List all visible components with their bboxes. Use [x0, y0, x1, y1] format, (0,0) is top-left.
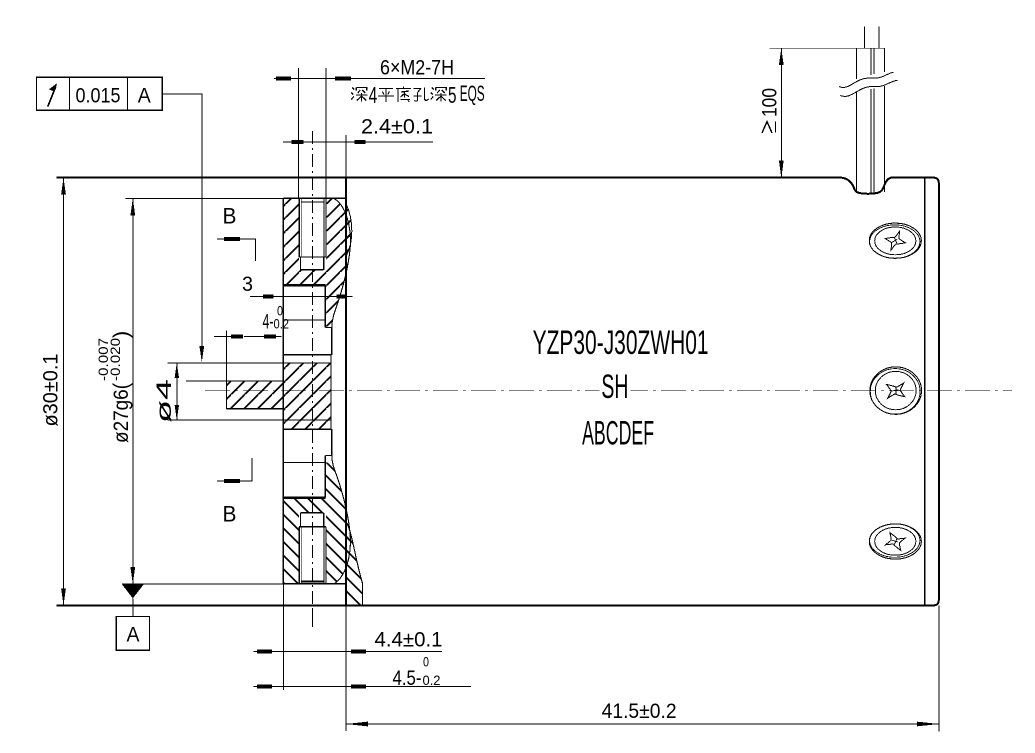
motor body right edge [938, 183, 940, 600]
screw top (phillips pan head) [869, 223, 921, 258]
datum box [116, 617, 149, 651]
dim line o30 [63, 178, 65, 606]
dim line 2.4 [283, 141, 433, 143]
flange top edge left extension [125, 197, 283, 199]
dim line 41.5 [346, 723, 939, 725]
svg-text:100: 100 [758, 88, 782, 117]
hub right face [330, 355, 332, 429]
bell curve lower [332, 456, 351, 584]
motor body top edge with wire notch [57, 178, 939, 194]
bell lip upper (outside face) [346, 204, 352, 256]
svg-text:2.4±0.1: 2.4±0.1 [361, 116, 433, 139]
hatch: bell foot lower-right corner [346, 522, 362, 605]
svg-text:EQS: EQS [460, 81, 485, 106]
hatch: bell lip lens upper [346, 204, 352, 256]
motor body bottom-right corner [934, 600, 939, 605]
dim text o4 (rotated) [152, 379, 176, 423]
shaft bottom edge [227, 408, 284, 410]
hatch: flange upper-right block (to bell curve) [325, 198, 350, 327]
runout symbol arrow [48, 87, 56, 107]
lower slot thick bottom line [283, 497, 325, 499]
motor end-cap seam line [924, 178, 926, 606]
dim line 3 [250, 295, 353, 297]
lower slot top [283, 462, 325, 464]
screw middle (phillips pan head) [870, 367, 922, 414]
upper pocket step [325, 327, 332, 329]
svg-text:0: 0 [423, 655, 429, 670]
lower slot right face [324, 456, 326, 498]
dim line >=100 vertical [780, 48, 782, 177]
svg-text:B: B [223, 204, 237, 229]
section B bottom arrow [217, 458, 252, 481]
hatch: band above lower tapped hole [299, 498, 326, 513]
shaft dia top line (ext of o4) [168, 362, 331, 364]
hatch: shaft tip [227, 381, 284, 409]
SH text with mask over centerline [599, 378, 630, 402]
FCF leader line [162, 94, 202, 348]
motor body bottom edge [57, 604, 934, 606]
dim text o27g6 tolerances (rotated) [96, 331, 133, 443]
svg-text:B: B [223, 502, 237, 527]
flange top face [283, 197, 346, 199]
screw bottom (phillips pan head) [869, 524, 921, 559]
lower tapped hole thread inner lines [300, 527, 302, 584]
hatch: hub block [283, 363, 331, 429]
svg-text:A: A [138, 83, 152, 107]
upper tapped hole thread inner lines [300, 198, 302, 257]
lower hole mouth line [301, 581, 324, 583]
wire break wavy line 2 [840, 80, 898, 96]
ext line at wire end [770, 47, 885, 49]
svg-text:41.5±0.2: 41.5±0.2 [602, 700, 677, 723]
flange bottom face [283, 583, 346, 585]
hub top face [283, 354, 331, 356]
hub bottom face [283, 428, 331, 430]
hatch: flange lower-right block (to bell curve) [325, 463, 350, 584]
bell foot outline lower [346, 522, 362, 605]
upper slot right face [324, 285, 326, 327]
dim text o30+-0.1 (rotated) [39, 354, 63, 427]
svg-text:5: 5 [448, 82, 457, 108]
shaft flat top edge [186, 380, 284, 382]
bell curve upper [332, 198, 351, 327]
note text CJK line: shen4 pingdikong shen5 EQS [351, 88, 367, 102]
dim text >=100 (rotated) [758, 88, 782, 133]
svg-text:ø4: ø4 [152, 379, 176, 423]
ext lines below [282, 584, 284, 659]
upper slot thick top line [283, 284, 325, 286]
lower hole thread top step [299, 526, 326, 528]
dim line o27g6 [132, 198, 134, 584]
lead wire upper stubs [863, 27, 865, 49]
screw-hole vertical centerline [311, 131, 313, 627]
svg-text:ø27g6(: ø27g6( [109, 382, 133, 443]
lead wire bundle upper segment [855, 48, 857, 79]
motor front face [345, 178, 347, 606]
svg-text:4-: 4- [263, 311, 274, 334]
section B top arrow [217, 239, 256, 261]
feature control frame box [37, 77, 163, 110]
dim line o4 [176, 363, 178, 420]
svg-text:0.015: 0.015 [76, 83, 121, 107]
svg-text:4: 4 [369, 82, 378, 108]
horizontal centerline [205, 390, 1012, 392]
ext left for 4.5 [282, 659, 284, 690]
svg-text:YZP30-J30ZWH01: YZP30-J30ZWH01 [533, 324, 709, 362]
hatch: flange lower-left block [283, 498, 299, 584]
lower hole flat-bottom drill [300, 513, 302, 527]
ext line motor face up [345, 135, 347, 178]
svg-text:ABCDEF: ABCDEF [582, 415, 654, 453]
dim line 4-0.2 [244, 336, 282, 338]
FCF leader arrow [199, 346, 204, 362]
shaft dia bottom line (ext of o4) [168, 419, 331, 421]
hatch: band under upper tapped hole [299, 270, 326, 286]
svg-text:SH: SH [601, 368, 628, 406]
datum triangle [122, 585, 143, 599]
dim line 4.5 [254, 685, 471, 687]
upper hole mouth line [302, 201, 325, 203]
ext line right edge down [938, 605, 940, 731]
lower pocket step [325, 455, 332, 457]
svg-text:3: 3 [242, 273, 253, 296]
note/dim line y=78.3 [274, 77, 485, 79]
svg-text:): ) [109, 331, 133, 338]
svg-text:A: A [127, 623, 141, 647]
flange left face [282, 198, 284, 584]
pocket right face upper [331, 328, 333, 355]
flange bottom edge left extension [122, 583, 283, 585]
svg-text:ø30±0.1: ø30±0.1 [39, 354, 63, 427]
wire break wavy line 1 [839, 72, 894, 87]
shaft tip end + 4-0.2 extension [226, 331, 228, 409]
lead wire bundle lower segment [855, 92, 857, 193]
upper hole thread bottom step [299, 256, 326, 258]
upper tapped hole M2 walls [298, 198, 300, 257]
svg-text:0.2: 0.2 [423, 673, 441, 688]
upper slot bottom [283, 319, 325, 321]
pocket right face lower [331, 429, 333, 455]
upper hole flat-bottom drill [300, 257, 302, 270]
lower tapped hole M2 walls [298, 527, 300, 584]
datum stem [132, 598, 134, 616]
svg-text:4.4±0.1: 4.4±0.1 [375, 629, 443, 652]
svg-text:-0.020: -0.020 [108, 338, 123, 381]
dim line 4.4 [254, 651, 442, 653]
svg-text:0.2: 0.2 [274, 317, 290, 332]
svg-text:6×M2-7H: 6×M2-7H [380, 57, 454, 80]
ext lines for M2 hole [298, 68, 300, 198]
hatch: flange upper-left block [283, 198, 299, 285]
